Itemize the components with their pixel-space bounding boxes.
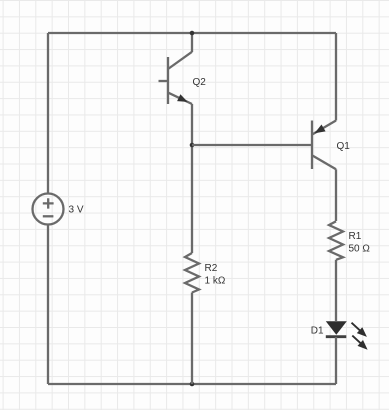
Q1 emitter arrowhead (pointing into base bar) <box>315 125 326 134</box>
junction: top rail / Q2 collector <box>190 31 195 36</box>
Q2 emitter arrowhead <box>177 94 188 102</box>
wire: Q2 collector stub to top rail <box>191 33 193 52</box>
svg-text:R1: R1 <box>349 231 362 242</box>
LED D1 cathode bar <box>326 335 347 338</box>
svg-text:50 Ω: 50 Ω <box>349 244 371 255</box>
svg-text:R2: R2 <box>205 263 218 274</box>
junction: base node on middle vertical wire <box>190 143 195 148</box>
wire: LED cathode to bottom rail <box>335 337 337 384</box>
svg-text:1 kΩ: 1 kΩ <box>205 276 226 287</box>
wire: bottom rail <box>48 383 336 385</box>
svg-text:D1: D1 <box>311 326 324 337</box>
resistor R1 <box>329 221 343 259</box>
wire: top rail from left rail to right rail <box>48 32 336 34</box>
wire: Q1 collector down to R1 <box>335 169 337 221</box>
svg-text:3 V: 3 V <box>69 205 84 216</box>
wire: node to Q1 base <box>192 144 312 146</box>
wire: Q2 emitter down through node to R2 top <box>191 104 193 253</box>
resistor R2 <box>185 253 199 293</box>
wire: top rail down to Q1 emitter <box>335 33 337 121</box>
svg-text:Q1: Q1 <box>337 141 351 152</box>
svg-text:Q2: Q2 <box>193 77 207 88</box>
voltage source V1 <box>33 194 64 225</box>
transistor Q1 (PNP) <box>312 121 336 170</box>
transistor Q2 (NPN) <box>159 52 193 104</box>
LED D1 light arrow 2 <box>352 336 367 350</box>
wire: left rail lower (V1 minus terminal down to bottom rail) <box>47 225 49 385</box>
wire: R1 bottom to LED D1 <box>335 260 337 321</box>
junction: bottom rail / R2 <box>190 382 195 387</box>
LED D1 anode triangle <box>326 321 347 335</box>
wire: left rail upper (top rail down to V1 plus terminal) <box>47 33 49 194</box>
LED D1 light arrow 1 <box>352 323 367 337</box>
wire: R2 bottom to bottom rail <box>191 293 193 385</box>
